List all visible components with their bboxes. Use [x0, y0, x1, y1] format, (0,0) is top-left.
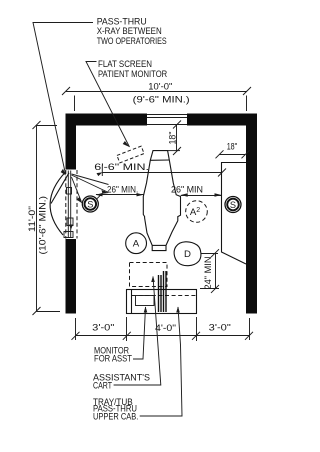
- svg-text:A: A: [133, 239, 140, 250]
- svg-text:3'-0": 3'-0": [92, 323, 114, 334]
- svg-text:S: S: [230, 200, 236, 210]
- svg-text:24" MIN: 24" MIN: [203, 256, 214, 289]
- svg-text:4'-0": 4'-0": [155, 323, 176, 334]
- svg-text:FOR ASST: FOR ASST: [94, 354, 133, 364]
- svg-text:S: S: [87, 200, 93, 210]
- svg-text:18": 18": [227, 141, 238, 152]
- svg-text:PATIENT MONITOR: PATIENT MONITOR: [98, 69, 167, 80]
- svg-text:18": 18": [168, 132, 179, 145]
- svg-text:10'-0": 10'-0": [148, 82, 172, 93]
- svg-text:11'-0": 11'-0": [27, 206, 38, 232]
- svg-text:6'-6" MIN.: 6'-6" MIN.: [94, 162, 149, 173]
- svg-text:3'-0": 3'-0": [209, 323, 231, 334]
- svg-text:(10'-6" MIN.): (10'-6" MIN.): [38, 196, 49, 255]
- svg-text:TWO OPERATORIES: TWO OPERATORIES: [97, 36, 167, 47]
- svg-text:UPPER CAB.: UPPER CAB.: [93, 412, 138, 422]
- svg-text:(9'-6" MIN.): (9'-6" MIN.): [133, 95, 190, 106]
- svg-text:CART: CART: [93, 380, 112, 390]
- svg-text:26" MIN.: 26" MIN.: [107, 184, 138, 195]
- svg-text:D: D: [184, 249, 191, 260]
